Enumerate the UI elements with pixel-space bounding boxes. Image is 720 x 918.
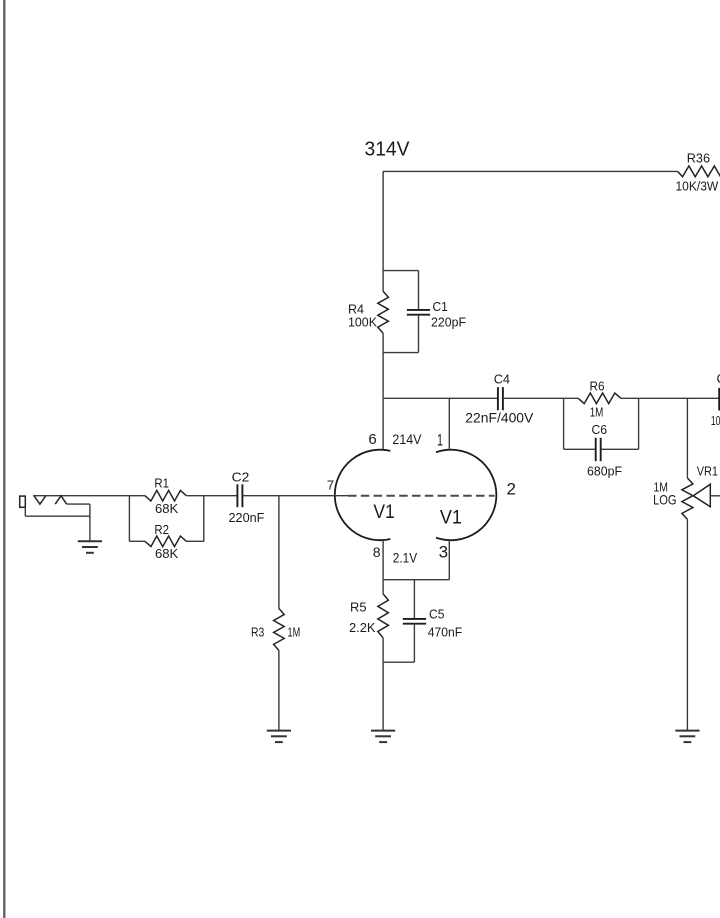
- tube V1 left triode envelope: [335, 450, 391, 541]
- svg-text:22nF/400V: 22nF/400V: [465, 410, 534, 426]
- wire cathode bottom rail: [383, 661, 414, 663]
- svg-text:C5: C5: [429, 607, 444, 622]
- svg-text:R1: R1: [154, 476, 169, 491]
- wire C6 bracket bottom left: [564, 448, 596, 450]
- svg-text:R5: R5: [350, 600, 367, 615]
- wire R2 right junction vertical: [203, 496, 205, 542]
- resistor R36: [678, 166, 720, 177]
- wire R1 left junction vertical: [128, 496, 130, 542]
- wire shorting contact to ground: [67, 503, 90, 505]
- ground (VR1): [675, 730, 699, 732]
- svg-text:R36: R36: [687, 151, 710, 166]
- wire grid dashed (pins 7/2): [348, 495, 495, 497]
- svg-text:R6: R6: [590, 378, 605, 393]
- capacitor C5: [403, 618, 426, 620]
- resistor R6: [578, 393, 621, 404]
- wire C1 upper lead: [418, 271, 420, 310]
- svg-text:2.2K: 2.2K: [349, 620, 376, 635]
- capacitor C4: [497, 387, 499, 410]
- wire C2 to tube grid: [242, 495, 348, 497]
- svg-text:VR1: VR1: [697, 464, 718, 479]
- wire C5 top lead: [413, 580, 415, 619]
- wire R3 to ground: [278, 650, 280, 730]
- svg-text:8: 8: [373, 544, 381, 560]
- wire C4 to R6: [503, 397, 578, 399]
- wire C6 bracket bottom right: [601, 448, 639, 450]
- input jack plug tip: [20, 496, 26, 507]
- svg-text:314V: 314V: [365, 138, 411, 160]
- wire VR1 to ground: [686, 519, 688, 730]
- VR1 wiper arrow: [693, 484, 710, 507]
- pin 6 wire: [382, 398, 384, 450]
- wire C5 bottom lead: [413, 624, 415, 663]
- ground (jack): [78, 540, 102, 542]
- svg-text:R2: R2: [154, 522, 169, 537]
- svg-text:680pF: 680pF: [587, 463, 622, 478]
- capacitor C1: [407, 309, 430, 311]
- pin 3 wire: [448, 540, 450, 580]
- svg-text:1: 1: [437, 431, 443, 450]
- svg-text:68K: 68K: [155, 546, 179, 561]
- wire R5 bottom lead: [382, 638, 384, 662]
- svg-text:6: 6: [368, 431, 376, 448]
- wire VR1 wiper: [710, 495, 720, 497]
- resistor R1: [145, 490, 186, 501]
- svg-text:C1: C1: [433, 299, 448, 314]
- resistor R3: [274, 609, 285, 651]
- svg-text:7: 7: [327, 477, 334, 492]
- svg-text:10: 10: [711, 413, 720, 428]
- ground (R3): [267, 730, 291, 732]
- svg-text:470nF: 470nF: [428, 624, 462, 639]
- svg-text:220nF: 220nF: [229, 510, 265, 525]
- capacitor C6: [595, 438, 597, 461]
- jack tip contact: [34, 496, 46, 504]
- wire anode node horizontal: [383, 397, 498, 399]
- resistor R4: [378, 291, 389, 333]
- svg-text:68K: 68K: [155, 501, 179, 516]
- wire C1 lower lead: [418, 315, 420, 353]
- wire jack sleeve vertical: [24, 507, 26, 516]
- capacitor C7 (clipped at edge): [718, 388, 720, 411]
- jack shorting contact: [55, 496, 66, 504]
- pin 1 wire: [448, 398, 450, 450]
- wire R1 right lead: [186, 495, 204, 497]
- svg-text:LOG: LOG: [653, 492, 677, 508]
- wire VR1 top lead: [686, 398, 688, 478]
- svg-text:1M: 1M: [590, 405, 604, 420]
- svg-text:C7: C7: [717, 371, 720, 386]
- capacitor C6 left bracket wire: [563, 398, 565, 449]
- capacitor C2: [236, 484, 238, 507]
- wire plate supply vertical: [382, 171, 384, 291]
- wire cathode to ground: [382, 662, 384, 730]
- capacitor C1 bottom bracket wire: [383, 352, 418, 354]
- wire jack ground drop: [89, 504, 91, 541]
- wire R2 left lead: [129, 540, 145, 542]
- svg-text:C2: C2: [232, 470, 250, 485]
- svg-text:100K: 100K: [348, 315, 377, 330]
- svg-text:10K/3W: 10K/3W: [676, 178, 719, 193]
- resistor R5: [378, 594, 389, 638]
- wire R3 drop: [278, 496, 280, 609]
- wire R2 right lead: [186, 540, 204, 542]
- resistor R2: [145, 536, 186, 547]
- svg-text:1M: 1M: [288, 624, 301, 639]
- wire jack tip to R1: [33, 495, 129, 497]
- capacitor C6 right bracket wire: [638, 398, 640, 449]
- wire cathode rail: [383, 579, 449, 581]
- svg-text:214V: 214V: [392, 431, 422, 447]
- wire R6 to right edge: [621, 397, 719, 399]
- svg-text:220pF: 220pF: [431, 315, 466, 330]
- svg-text:2: 2: [507, 479, 516, 498]
- tube V1 right triode envelope: [436, 450, 496, 540]
- wire jack sleeve bottom: [25, 515, 90, 517]
- svg-text:V1: V1: [373, 502, 394, 523]
- svg-text:V1: V1: [440, 507, 462, 528]
- wire R4 bottom to node: [382, 333, 384, 398]
- svg-text:C4: C4: [494, 372, 510, 387]
- svg-text:C6: C6: [592, 422, 608, 437]
- ground (cathode): [371, 730, 395, 732]
- wire supply 314V horizontal: [383, 170, 678, 172]
- svg-text:2.1V: 2.1V: [393, 550, 418, 566]
- capacitor C1 top bracket wire: [383, 270, 418, 272]
- potentiometer VR1: [682, 478, 693, 519]
- pin 8 wire: [382, 540, 384, 580]
- wire R1 left lead: [129, 495, 145, 497]
- svg-text:R3: R3: [251, 625, 264, 640]
- svg-text:3: 3: [439, 543, 448, 562]
- wire R5 top lead: [382, 580, 384, 594]
- wire R1 to C2: [204, 495, 238, 497]
